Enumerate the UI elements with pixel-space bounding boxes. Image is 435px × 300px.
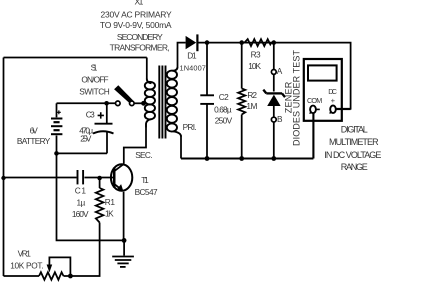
svg-text:SWITCH: SWITCH xyxy=(79,87,110,97)
svg-text:TO 9V-0-9V, 500mA: TO 9V-0-9V, 500mA xyxy=(100,20,172,30)
svg-text:BC547: BC547 xyxy=(135,187,158,197)
svg-text:1N4007: 1N4007 xyxy=(180,64,206,73)
svg-text:DC: DC xyxy=(328,87,337,96)
svg-text:DIGITAL: DIGITAL xyxy=(341,125,368,135)
svg-text:TRANSFORMER,: TRANSFORMER, xyxy=(110,42,170,52)
svg-text:10K POT.: 10K POT. xyxy=(10,260,43,270)
svg-text:VR1: VR1 xyxy=(18,249,32,259)
svg-text:RANGE: RANGE xyxy=(341,162,368,172)
svg-text:25V: 25V xyxy=(80,133,92,143)
svg-text:COM: COM xyxy=(307,96,322,105)
svg-text:X1: X1 xyxy=(135,0,144,7)
svg-text:C1: C1 xyxy=(75,186,87,196)
svg-text:IN DC VOLTAGE: IN DC VOLTAGE xyxy=(324,150,381,160)
svg-text:C2: C2 xyxy=(219,92,229,102)
svg-text:R2: R2 xyxy=(247,90,257,100)
svg-text:T1: T1 xyxy=(141,175,149,185)
svg-text:+: + xyxy=(331,96,336,105)
svg-text:1K: 1K xyxy=(105,209,114,219)
svg-text:160V: 160V xyxy=(72,209,89,219)
svg-text:0.68µ: 0.68µ xyxy=(214,105,232,115)
svg-text:230V AC PRIMARY: 230V AC PRIMARY xyxy=(101,9,173,19)
svg-text:DIODES UNDER TEST: DIODES UNDER TEST xyxy=(291,50,301,147)
svg-text:C3: C3 xyxy=(86,110,95,120)
svg-text:SECONDERY: SECONDERY xyxy=(117,32,163,42)
svg-text:BATTERY: BATTERY xyxy=(17,136,51,146)
svg-text:D1: D1 xyxy=(187,51,197,61)
svg-text:6V: 6V xyxy=(30,125,39,135)
svg-text:MULTIMETER: MULTIMETER xyxy=(329,137,379,147)
svg-text:1M: 1M xyxy=(246,101,257,111)
svg-text:1µ: 1µ xyxy=(77,198,86,208)
svg-text:SEC.: SEC. xyxy=(135,150,152,160)
svg-text:10K: 10K xyxy=(248,61,261,71)
svg-text:S1: S1 xyxy=(91,62,98,72)
svg-text:R3: R3 xyxy=(251,49,261,59)
svg-text:R1: R1 xyxy=(105,197,116,207)
svg-text:PRI.: PRI. xyxy=(183,122,197,132)
svg-text:250V: 250V xyxy=(215,115,233,125)
svg-text:ON/OFF: ON/OFF xyxy=(81,75,108,85)
svg-text:A: A xyxy=(277,66,283,76)
svg-text:B: B xyxy=(277,114,283,124)
